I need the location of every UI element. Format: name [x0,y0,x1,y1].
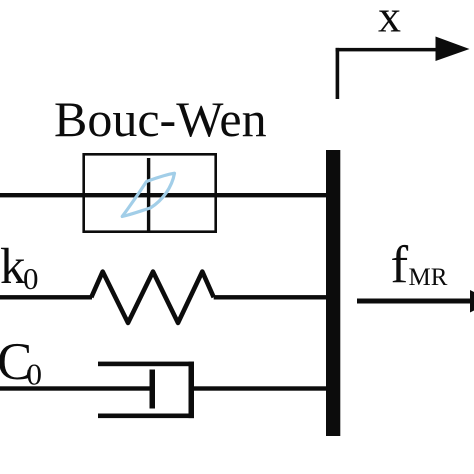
svg-text:0: 0 [27,357,43,392]
damper C0 piston plate [150,370,156,409]
damper C0 cylinder right wall [189,362,195,419]
wire row1 Bouc-Wen box to mass bar (hysteresis horizontal axis continues) [84,193,328,197]
wire row2 left lead into spring [0,295,92,299]
wire row1 left lead into Bouc-Wen box [0,193,84,197]
damper C0 cylinder bottom wall [98,414,194,419]
wire row3 cylinder to mass bar [194,386,328,390]
Bouc-Wen box vertical axis line [147,158,150,232]
svg-text:x: x [378,0,401,42]
svg-text:0: 0 [23,261,39,296]
wire displacement-axis vertical drop line [336,48,340,99]
wire row2 spring to mass bar [214,295,328,299]
Bouc-Wen element box [84,154,216,231]
wire force arrow shaft [357,299,471,304]
hysteresis loop (light blue) [122,173,174,216]
wire displacement-axis horizontal arrow shaft [336,48,437,52]
wire row3 left piston rod [0,386,152,390]
mass bar (rigid plate) [326,150,340,436]
wire displacement-axis arrowhead [436,37,470,62]
svg-text:MR: MR [409,264,448,291]
svg-text:Bouc-Wen: Bouc-Wen [54,91,267,147]
damper C0 cylinder top wall [98,362,194,367]
svg-text:f: f [391,236,409,294]
wire force arrowhead (clipped at right edge) [470,290,474,313]
spring k0 zigzag [91,272,213,323]
